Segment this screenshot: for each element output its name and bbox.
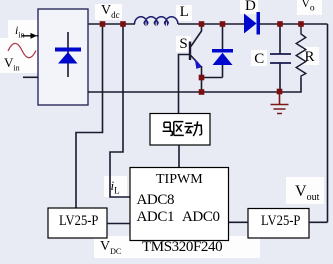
wire: emitter to anti-parallel diode: [202, 77, 223, 79]
bridge diode cathode bar: [55, 48, 81, 52]
bridge diode triangle: [58, 52, 78, 64]
capacitor C plates: [270, 54, 291, 63]
wire: Vdc sense from node down-left to LV25-P: [76, 24, 103, 208]
white patch behind V_DC and TMS320F240 labels: [94, 236, 260, 258]
junction node dot at emitter/diode: [199, 75, 205, 81]
junction node dot on bottom rail at ground: [277, 89, 283, 95]
wire: LV25-P right to output rail: [309, 221, 328, 223]
sine wave source symbol: [8, 43, 36, 57]
capacitor C bottom lead: [279, 63, 281, 92]
label i_in: [15, 24, 25, 39]
rectifier bridge box: [38, 9, 88, 105]
label V_dc: [101, 4, 120, 20]
white patch behind V_out label: [286, 177, 324, 204]
white patch behind L label: [176, 5, 192, 21]
label D: [245, 0, 256, 14]
wire: LV25-P left to ADC1: [107, 223, 130, 225]
label C: [254, 52, 264, 67]
white patch behind S label: [176, 36, 191, 52]
junction node dot on bottom rail at emitter: [199, 89, 205, 95]
ground symbol: [271, 92, 289, 114]
LV25-P left box: [48, 208, 107, 238]
label ADC0: [182, 210, 220, 225]
white patch behind i_in label: [8, 20, 38, 38]
white patch behind R label: [302, 47, 319, 65]
capacitor C top lead: [279, 24, 281, 54]
label LV25-P right: [261, 214, 300, 229]
label R: [305, 50, 315, 65]
wire: gate lead to driver: [179, 55, 191, 114]
bridge diode vertical lead: [67, 32, 69, 77]
wire: input current line with arrow: [22, 35, 39, 37]
anti-parallel diode bottom lead: [222, 65, 224, 78]
wire: lower input line: [23, 76, 38, 78]
white patch behind i_L label: [104, 176, 127, 197]
label TMS320F240: [142, 240, 222, 255]
driver text 驱动 drawn strokes: [163, 121, 202, 136]
transistor S bar: [189, 42, 191, 61]
anti-parallel diode top lead: [222, 24, 224, 49]
label ADC1: [137, 210, 175, 225]
diode D triangle: [244, 14, 257, 34]
LV25-P right box: [248, 209, 309, 239]
wire: ADC0 to LV25-P right: [229, 221, 248, 223]
wire: iL sense from node down to ADC8 input: [110, 24, 130, 197]
transistor S emitter arrowhead: [195, 59, 203, 69]
wire: right rail down to output sensor: [327, 24, 329, 222]
anti-parallel diode triangle: [213, 53, 233, 65]
white patch behind D label: [240, 0, 258, 14]
transistor S collector lead: [191, 24, 202, 47]
label ADC8: [137, 193, 175, 208]
diode D cathode bar: [257, 12, 261, 35]
DSP TMS320F240 box: [130, 168, 229, 241]
anti-parallel diode cathode bar: [212, 49, 233, 53]
label L: [180, 5, 189, 20]
resistor R top lead and zigzag: [296, 24, 306, 78]
input arrowhead: [31, 33, 38, 39]
white patch behind C label: [251, 50, 267, 66]
white patch behind V_o label: [297, 0, 322, 15]
inductor L: [135, 17, 178, 24]
wire: top rail from rectifier to inductor: [88, 23, 135, 25]
white patch behind V_dc label: [95, 4, 122, 20]
label LV25-P left: [59, 214, 98, 229]
label TIPWM: [156, 173, 203, 187]
wire: emitter down to bottom rail: [201, 66, 203, 92]
transistor S emitter lead: [191, 56, 199, 64]
label V_DC: [100, 240, 121, 256]
wire: top rail from inductor to diode D: [178, 23, 244, 25]
label V_o: [302, 0, 315, 14]
label i_L: [111, 179, 120, 196]
label S: [179, 37, 187, 52]
label V_in: [4, 56, 20, 73]
white patch behind sine source and V_in label: [0, 38, 38, 73]
wire: driver to TIPWM: [178, 145, 180, 167]
wire: bottom rail: [88, 78, 301, 92]
wire: top rail from diode D to output corner: [260, 23, 328, 25]
label V_out: [295, 184, 319, 203]
driver box: [150, 114, 210, 146]
junction node dots on Vdc rail: [100, 21, 106, 27]
